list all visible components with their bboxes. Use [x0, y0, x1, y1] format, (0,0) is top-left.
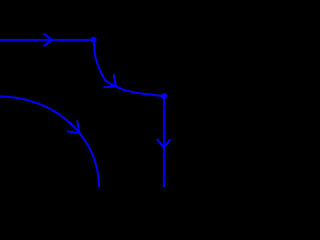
node A dot: [91, 37, 97, 43]
arrowhead down on vertical line: [158, 140, 170, 148]
arrowhead down-right on descending curve: [104, 75, 116, 87]
curve: trajectory from node A descending to node B: [94, 41, 164, 96]
node B dot: [161, 93, 167, 99]
wire: vertical trajectory line from node B to bottom edge: [163, 96, 165, 188]
wire: horizontal trajectory line from left edge to node A: [0, 39, 94, 41]
arrowhead right on horizontal line: [44, 34, 52, 45]
curve: lower-left arc trajectory: [0, 97, 99, 189]
arrowhead down-right on lower-left arc: [68, 121, 80, 133]
